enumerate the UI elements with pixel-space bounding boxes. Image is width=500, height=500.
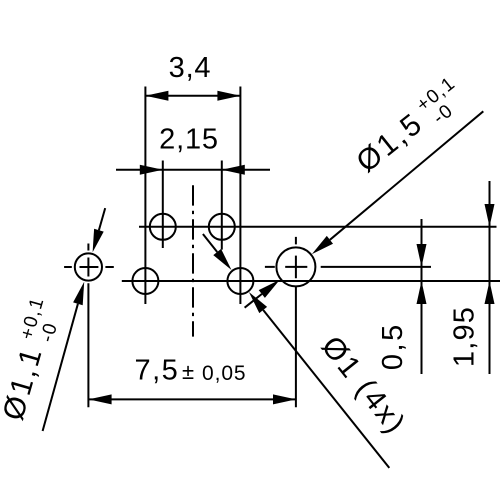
arrowhead 1,95 up xyxy=(485,281,495,304)
arrowhead 0,5 down xyxy=(417,244,427,267)
horizontal line through bottom row holes (1,95 / 0,5 bottom extension) xyxy=(122,280,500,282)
arrowhead 1,95 down xyxy=(485,204,495,227)
0,5 dimension line xyxy=(421,219,423,374)
0,5 top extension line xyxy=(321,266,431,268)
arrowhead 7,5 left xyxy=(89,394,112,404)
arrowhead 0,5 up xyxy=(417,281,427,304)
svg-text:-0: -0 xyxy=(37,320,63,345)
7,5 dimension line xyxy=(89,398,296,400)
hole B (Ø1) top-right circle xyxy=(209,214,235,240)
label Ø1 (4x) (rotated along leader) xyxy=(315,330,413,441)
leader line Ø1 lower xyxy=(263,310,389,468)
svg-text:±: ± xyxy=(182,359,194,384)
hole A (Ø1) top-left circle xyxy=(150,214,176,240)
arrowhead 3,4 right xyxy=(217,91,240,101)
svg-text:1,95: 1,95 xyxy=(449,306,481,367)
leader line Ø1,1 lower xyxy=(43,304,78,431)
svg-text:7,5: 7,5 xyxy=(135,355,180,387)
vertical dash-dot centerline xyxy=(192,185,194,336)
leader tail Ø1 upper xyxy=(203,234,217,252)
svg-text:Ø1,5: Ø1,5 xyxy=(350,106,429,179)
svg-text:2,15: 2,15 xyxy=(159,124,219,156)
arrowhead Ø1,1 upper xyxy=(93,229,104,253)
svg-text:3,4: 3,4 xyxy=(169,52,212,84)
arrowhead Ø1 upper-left xyxy=(213,249,231,270)
label Ø1,5 +0,1/-0 (rotated along leader) xyxy=(349,73,473,183)
3,4 dimension line xyxy=(145,95,240,97)
hole C6 (Ø1,5) big circle xyxy=(276,247,315,286)
hole C5 (Ø1) bottom-right circle xyxy=(227,268,253,294)
svg-text:Ø1,1: Ø1,1 xyxy=(0,343,49,424)
arrowhead 2,15 right xyxy=(222,165,245,175)
extension line x=221.8 (2,15 right) through hole B xyxy=(221,161,223,250)
svg-text:0,5: 0,5 xyxy=(377,322,409,370)
arrowhead 2,15 left xyxy=(140,165,163,175)
horizontal line through top row holes (1,95 top extension) xyxy=(139,226,497,228)
arrowhead Ø1,5 lower (at big circle bottom-left) xyxy=(259,280,280,298)
leader line Ø1,5 upper xyxy=(330,111,483,240)
arrowhead Ø1 lower-right xyxy=(249,292,267,313)
label Ø1,1 +0,1/-0 (rotated along leader) xyxy=(0,294,68,425)
arrowhead Ø1,1 lower xyxy=(73,282,84,306)
extension line x=240.4 (3,4 right) through C5 xyxy=(239,87,241,305)
arrowhead 7,5 right xyxy=(273,394,296,404)
leader tail Ø1,1 upper xyxy=(99,208,105,230)
hole C4 (Ø1) bottom-left circle xyxy=(132,268,158,294)
2,15 dimension line xyxy=(116,169,270,171)
centerline cross of big circle C6 xyxy=(265,237,307,407)
centerline cross of C1 xyxy=(64,244,114,408)
hole C1 (Ø1,1) left circle xyxy=(75,253,102,280)
arrowhead Ø1,5 upper (at big circle top-right) xyxy=(312,236,333,254)
extension line x=162.8 (2,15 left) through hole A xyxy=(162,161,164,249)
1,95 dimension line xyxy=(489,181,491,374)
svg-text:0,05: 0,05 xyxy=(202,362,246,385)
leader tail Ø1,5 lower xyxy=(245,294,262,308)
arrowhead 3,4 left xyxy=(145,91,168,101)
extension line x=145.4 (3,4 left) through C4 xyxy=(144,87,146,305)
